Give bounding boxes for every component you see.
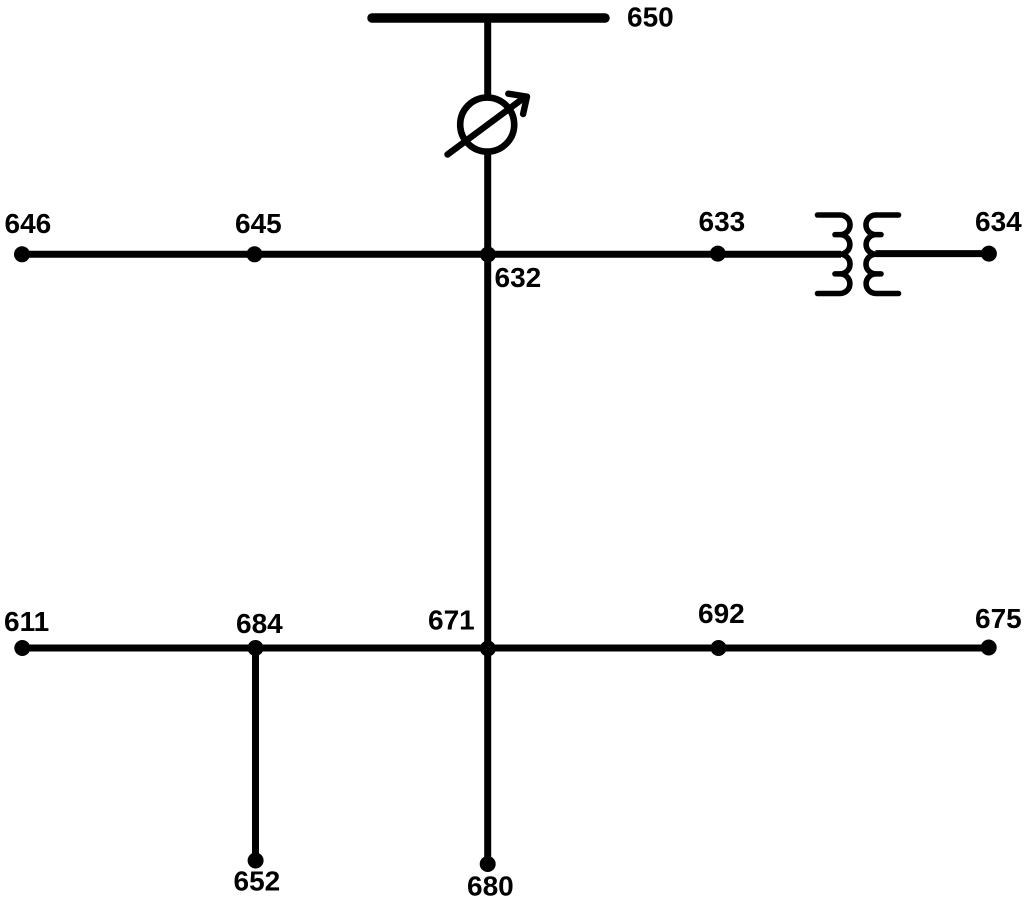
bus bar 650	[372, 13, 605, 23]
wire regulator to node 632	[484, 151, 491, 256]
svg-text:634: 634	[975, 206, 1022, 237]
wire top feeder 646-645-632-633 to transformer	[22, 251, 841, 258]
node 680	[480, 856, 496, 872]
node 611	[14, 640, 30, 656]
wire transformer to node 634	[876, 250, 990, 257]
voltage regulator VR	[448, 94, 528, 155]
label 692	[698, 598, 745, 629]
svg-text:671: 671	[428, 605, 475, 636]
transformer XFM-1 secondary winding	[866, 215, 899, 294]
label 680	[467, 871, 514, 898]
node 634	[981, 246, 997, 262]
svg-text:645: 645	[235, 208, 282, 239]
label 611	[4, 606, 49, 637]
node 675	[981, 640, 997, 656]
svg-text:675: 675	[975, 603, 1022, 634]
transformer XFM-1 primary winding	[818, 215, 851, 294]
svg-text:684: 684	[236, 608, 283, 639]
label 684	[236, 608, 283, 639]
svg-text:680: 680	[467, 871, 514, 898]
node 684	[248, 640, 264, 656]
svg-text:650: 650	[627, 2, 674, 33]
label 675	[975, 603, 1022, 634]
node 646	[14, 246, 30, 262]
label 645	[235, 208, 282, 239]
label 632	[495, 262, 542, 293]
label 650	[627, 2, 674, 33]
node 671	[480, 641, 496, 657]
svg-text:611: 611	[4, 606, 49, 637]
label 671	[428, 605, 475, 636]
node 645	[247, 246, 263, 262]
label 634	[975, 206, 1022, 237]
label 652	[234, 866, 281, 897]
svg-text:692: 692	[698, 598, 745, 629]
wire 684 to 652	[252, 648, 259, 861]
wire 671 to 680	[484, 648, 491, 864]
svg-text:652: 652	[234, 866, 281, 897]
wire middle vertical 632 to 671	[484, 254, 491, 648]
node 652	[248, 853, 264, 869]
svg-text:633: 633	[699, 206, 746, 237]
svg-text:646: 646	[5, 208, 52, 239]
wire bottom feeder 611-684-671-692-675	[22, 645, 989, 652]
node 692	[711, 640, 727, 656]
node 633	[710, 246, 726, 262]
label 646	[5, 208, 52, 239]
svg-text:632: 632	[495, 262, 542, 293]
wire 650 to regulator	[484, 18, 491, 98]
label 633	[699, 206, 746, 237]
node 632	[480, 247, 496, 263]
